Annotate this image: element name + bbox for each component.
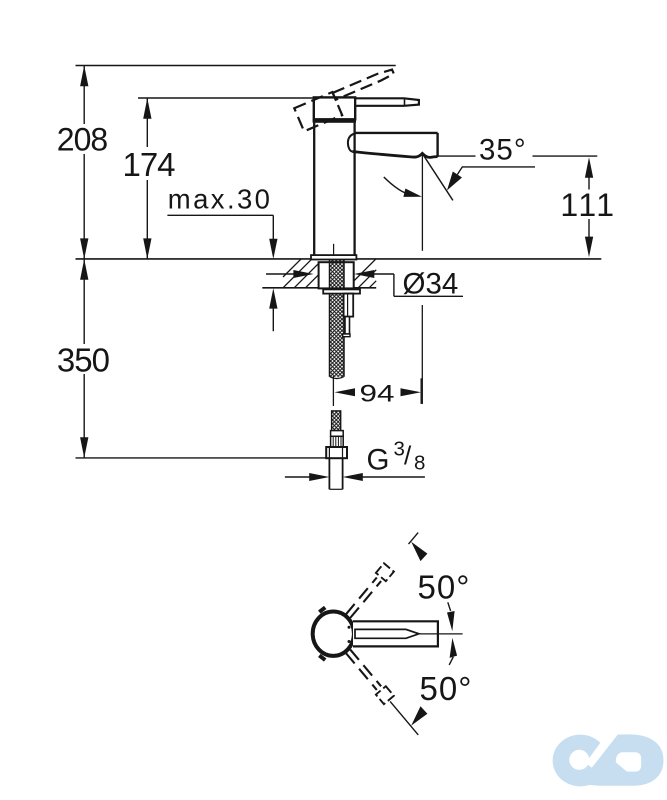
lower 50 leg arrow bbox=[411, 706, 427, 725]
hose axis line lower bbox=[332, 376, 334, 406]
svg-text:50°: 50° bbox=[420, 670, 473, 707]
circle tab upper left bbox=[318, 606, 326, 614]
bottom reference line 350 bbox=[76, 457, 327, 459]
svg-text:max.30: max.30 bbox=[168, 184, 273, 215]
svg-text:8: 8 bbox=[414, 452, 425, 475]
svg-text:/: / bbox=[404, 441, 412, 471]
lever handle bar bbox=[355, 98, 419, 106]
stud foot bbox=[343, 334, 350, 337]
swivel arc arrow bbox=[384, 177, 422, 197]
threaded shank section bbox=[319, 262, 354, 288]
svg-text:Ø34: Ø34 bbox=[403, 267, 459, 300]
logo D bbox=[579, 734, 663, 785]
mounting stud rod bbox=[345, 317, 350, 334]
svg-text:35°: 35° bbox=[479, 133, 527, 166]
svg-text:G: G bbox=[367, 443, 390, 476]
hex nut G3/8 bbox=[326, 447, 347, 458]
label G 3/8 bbox=[367, 438, 426, 477]
hose ferrule bbox=[331, 431, 344, 437]
dimension 111 line bbox=[585, 157, 593, 257]
dimension 208 line bbox=[80, 66, 88, 260]
body centerline bbox=[333, 244, 335, 259]
top view centerline bbox=[419, 633, 463, 635]
extension line 174 level bbox=[138, 97, 313, 99]
dimension 94 bbox=[335, 378, 422, 404]
svg-text:111: 111 bbox=[560, 187, 616, 223]
top view handle plate bbox=[353, 621, 438, 646]
lower 50 lever dashed bbox=[343, 647, 423, 739]
knurled connector bbox=[331, 436, 344, 447]
logo C ring bbox=[553, 735, 608, 787]
circle tab lower left bbox=[318, 654, 326, 662]
lower angular arc arrow bbox=[449, 638, 457, 665]
base flange bbox=[311, 255, 356, 259]
deck thickness arrow below deck bbox=[269, 288, 277, 331]
deck top line bbox=[76, 258, 602, 260]
svg-text:174: 174 bbox=[122, 146, 175, 183]
upper 50 leg arrow bbox=[411, 542, 427, 561]
spout bbox=[348, 133, 438, 158]
top view body circle bbox=[313, 612, 354, 656]
pivot dots bbox=[348, 626, 351, 629]
dashed raised lever bbox=[294, 67, 401, 131]
mounting washer bbox=[323, 289, 360, 293]
lower hose braid bbox=[332, 411, 341, 431]
faucet body column bbox=[314, 123, 354, 256]
extension line top (208 level) bbox=[76, 65, 396, 67]
diameter 34 leader bbox=[266, 270, 463, 296]
svg-text:208: 208 bbox=[57, 122, 108, 158]
aerator axis line bbox=[421, 154, 423, 404]
top view lever bbox=[355, 629, 419, 638]
dimension 174 line bbox=[143, 98, 151, 259]
faucet cartridge cap bbox=[314, 97, 355, 119]
svg-text:50°: 50° bbox=[418, 569, 471, 606]
upper 50 lever dashed bbox=[343, 528, 423, 620]
35 degree leader lines bbox=[437, 134, 598, 190]
deck hatching bbox=[283, 259, 376, 288]
deck bottom line bbox=[262, 287, 376, 289]
mounting stud sleeve bbox=[344, 294, 354, 317]
cap bottom thick bar bbox=[313, 119, 356, 123]
upper angular arc arrow bbox=[447, 602, 455, 631]
svg-text:350: 350 bbox=[57, 341, 110, 378]
svg-text:94: 94 bbox=[360, 380, 395, 407]
max.30 underline and leader bbox=[167, 215, 277, 259]
tube diameter arrows bbox=[285, 473, 425, 481]
braided hose upper bbox=[330, 260, 345, 379]
dimension 350 line bbox=[80, 259, 88, 458]
35 degree slant line at aerator bbox=[422, 154, 453, 201]
connector tube bbox=[329, 458, 342, 489]
logo clearance band bbox=[590, 734, 614, 767]
